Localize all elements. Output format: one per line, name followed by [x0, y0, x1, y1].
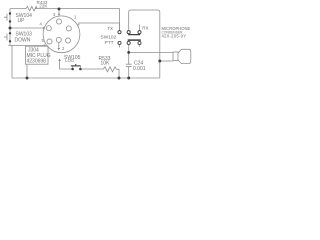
- pin 1: [66, 26, 71, 31]
- microphone capsule rect: [173, 52, 178, 61]
- wire SW105 to R533: [73, 66, 103, 69]
- svg-text:1: 1: [74, 15, 77, 20]
- wire SW104-SW103 column: [9, 9, 11, 46]
- svg-text:0.001: 0.001: [133, 66, 146, 72]
- svg-text:DOWN: DOWN: [15, 37, 31, 43]
- wire ground bus: [12, 77, 160, 79]
- svg-text:4230698: 4230698: [27, 59, 47, 65]
- junction dot bus C24: [127, 77, 130, 80]
- junction dot PTT-C24: [127, 51, 130, 54]
- svg-text:LOG: LOG: [65, 58, 74, 63]
- switch SW102 row2 stubs: [120, 45, 140, 48]
- junction dot bus left: [26, 77, 29, 80]
- arrowhead pin2 stem: [58, 48, 61, 50]
- switch SW102 row2 bar: [128, 39, 141, 41]
- pin 6: [65, 38, 70, 43]
- arrowhead pin3: [58, 14, 61, 16]
- wire pin3 drop: [58, 9, 60, 16]
- svg-text:SW102: SW102: [101, 35, 117, 41]
- wire pin1 jog: [77, 23, 119, 25]
- contact SW104 a: [9, 12, 11, 14]
- svg-text:10K: 10K: [101, 60, 111, 66]
- svg-text:UP: UP: [18, 18, 26, 24]
- svg-text:TX: TX: [107, 26, 113, 31]
- wire TX contact up / pin1 net: [119, 23, 121, 32]
- box J304 label: [26, 46, 49, 64]
- svg-text:2: 2: [62, 46, 65, 51]
- capacitor C24 top lead: [128, 52, 130, 64]
- contact SW103 b: [9, 40, 11, 42]
- contact SW105 right: [79, 68, 82, 71]
- resistor R533: [103, 67, 117, 72]
- pin 5: [47, 39, 52, 44]
- wire box drop to bus: [26, 64, 28, 78]
- contact SW102 row1 right: [138, 31, 141, 34]
- junction dot SW104/SW103: [9, 27, 12, 30]
- contact SW102 row2 mid: [127, 41, 130, 44]
- svg-text:4: 4: [40, 22, 43, 27]
- wire PTT row1 mid route up-over-down: [129, 10, 160, 78]
- wire RX line to microphone: [129, 51, 173, 53]
- pin 2: [56, 37, 61, 42]
- contact SW105 left: [71, 68, 74, 71]
- switch SW102 row2 bar risers: [129, 40, 140, 41]
- svg-text:420-205-9Y: 420-205-9Y: [162, 33, 187, 38]
- contact SW103 a: [9, 32, 11, 34]
- microphone horn: [178, 49, 191, 63]
- switch SW104 actuator: [4, 14, 7, 21]
- capacitor C24 bottom lead: [128, 67, 130, 78]
- wire R533 to bus: [117, 69, 120, 78]
- svg-text:3: 3: [53, 12, 56, 17]
- wire pin4: [11, 27, 45, 29]
- wire left drop to ground bus: [11, 46, 13, 79]
- resistor R433: [26, 6, 37, 10]
- svg-text:22K: 22K: [39, 4, 48, 9]
- contact SW102 row2 right: [138, 41, 141, 44]
- contact SW102 row1 mid: [127, 31, 130, 34]
- svg-text:RX: RX: [142, 25, 148, 30]
- wire SW105 left: [60, 59, 72, 69]
- capacitor C24 plates: [126, 64, 132, 66]
- switch SW105 bar: [71, 64, 81, 66]
- junction dot R433 pin3: [58, 7, 61, 10]
- contact SW102 row1 left: [118, 31, 121, 34]
- arrowhead SW105 wire top: [58, 59, 61, 61]
- arrowhead pin4: [43, 27, 45, 30]
- svg-text:PTT: PTT: [105, 40, 114, 46]
- wire pin5: [9, 45, 46, 47]
- wire mic bottom lead: [160, 60, 173, 62]
- pin 3: [56, 19, 61, 24]
- switch SW103 actuator: [4, 34, 7, 41]
- wire pin2 stem: [58, 42, 60, 49]
- wire RX stub: [139, 25, 141, 31]
- arrowhead pin5: [44, 44, 46, 47]
- connector J304 circle: [43, 16, 80, 53]
- contact SW104 b: [9, 20, 11, 22]
- wire PTT middle to junction: [128, 45, 130, 53]
- switch SW102 row1 bar: [129, 33, 140, 36]
- junction dot bus R533: [118, 77, 121, 80]
- contact SW102 row2 left: [118, 41, 121, 44]
- wire top bus: [10, 9, 120, 33]
- pin 4: [46, 26, 51, 31]
- junction dot mic bottom: [158, 60, 161, 63]
